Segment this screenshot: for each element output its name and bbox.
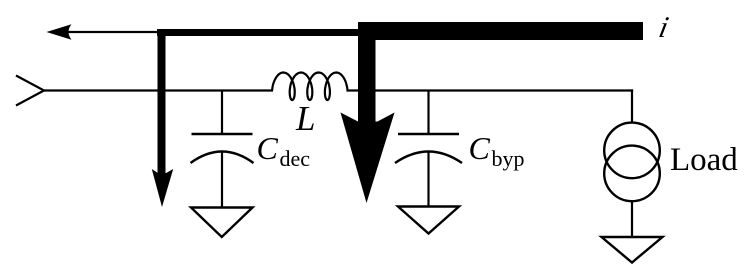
wire Cbyp bottom lead <box>427 153 429 207</box>
svg-text:dec: dec <box>280 146 311 171</box>
capacitor Cdec top plate <box>192 133 253 135</box>
wire Cbyp top lead <box>427 91 429 135</box>
current source Load circle bottom <box>604 146 660 202</box>
wire load bottom lead <box>631 201 633 237</box>
svg-text:byp: byp <box>492 146 525 171</box>
wire load corner <box>632 91 633 124</box>
bus bar medium (horizontal) <box>157 29 362 36</box>
arrowhead left (return current) <box>47 24 72 39</box>
svg-text:C: C <box>469 130 491 166</box>
wire shaft vertical left arrow <box>158 29 166 176</box>
inductor L1 <box>272 73 347 101</box>
svg-text:i: i <box>656 10 671 44</box>
svg-text:L: L <box>295 99 315 138</box>
wire Cdec bottom lead <box>221 153 223 208</box>
wire main right segment <box>347 89 634 91</box>
capacitor Cbyp top plate <box>398 133 459 135</box>
ground Cdec <box>191 208 253 238</box>
node input chevron <box>16 76 44 106</box>
wire main left segment <box>44 89 273 91</box>
wire shaft vertical thick arrow <box>358 22 376 125</box>
arrowhead left-branch down <box>152 169 173 207</box>
current source Load circle top <box>604 123 660 179</box>
wire return line top <box>64 31 160 33</box>
bus bar thick (horizontal, current i) <box>358 22 643 40</box>
capacitor Cbyp curved plate <box>395 152 462 164</box>
svg-text:C: C <box>257 130 279 166</box>
svg-text:Load: Load <box>670 142 738 178</box>
capacitor Cdec curved plate <box>191 152 254 164</box>
ground Cbyp <box>398 207 459 234</box>
wire Cdec top lead <box>221 91 223 135</box>
arrowhead big down <box>341 113 395 204</box>
ground Load <box>602 237 663 263</box>
